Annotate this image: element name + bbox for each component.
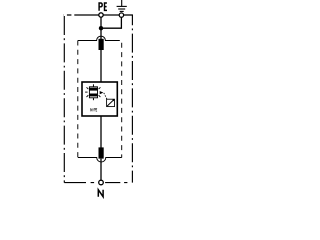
label N-PE — [91, 108, 98, 111]
wire disconnector to device box — [100, 50, 102, 82]
wire device box to bottom disconnector — [100, 116, 102, 149]
wire ground terminal down to junction — [103, 17, 121, 28]
enclosure box bottom edge with hump under wire — [78, 158, 122, 163]
outer earthing boundary right edge (dash-dot) — [131, 15, 133, 183]
wire disconnector to N terminal — [100, 159, 102, 181]
terminal N — [99, 180, 104, 185]
wire ground terminal to right boundary corner — [124, 14, 133, 16]
label N — [98, 190, 103, 197]
status indicator diagonal arrow — [107, 100, 113, 106]
thermal disconnector (bottom) — [99, 147, 104, 158]
wire junction down to disconnector — [100, 28, 102, 39]
wire PE terminal to left boundary — [74, 14, 99, 16]
arrow from spark gap — [100, 91, 104, 94]
wire PE terminal to ground terminal — [103, 14, 119, 16]
label PE — [99, 3, 107, 11]
status indicator square — [107, 99, 115, 106]
spark gap N-PE — [85, 84, 100, 100]
outer earthing boundary bottom edge (dash-dot) — [64, 182, 132, 184]
dashed link arrow to indicator — [104, 93, 107, 99]
junction node — [99, 26, 103, 30]
terminal to equipotential bonding (ground) — [119, 13, 123, 17]
thermal disconnector (top) — [99, 39, 104, 50]
enclosure dashed box left edge — [77, 41, 79, 158]
wire PE terminal down to junction — [100, 17, 102, 28]
earth symbol — [117, 0, 127, 11]
enclosure box top edge with hump over wire — [78, 36, 120, 40]
device box — [82, 82, 117, 116]
enclosure dashed box right edge — [121, 43, 123, 158]
outer earthing boundary left edge (dash-dot) — [63, 16, 65, 183]
terminal PE — [99, 13, 103, 17]
outer earthing boundary top-left segment (dash-dot) — [64, 14, 75, 16]
